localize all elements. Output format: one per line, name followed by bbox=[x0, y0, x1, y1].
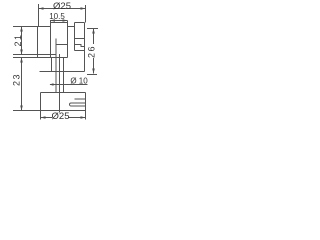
dimension D25 top extension line left bbox=[38, 4, 40, 27]
svg-text:26: 26 bbox=[87, 45, 97, 58]
dimension 21 dim line bbox=[21, 27, 23, 55]
stem outer left edge bbox=[55, 39, 57, 93]
stem outer right edge bbox=[63, 58, 65, 93]
arrowhead D25 bottom left bbox=[41, 116, 46, 119]
arrowhead D25 top left bbox=[39, 7, 44, 10]
flange step line right bbox=[75, 98, 86, 100]
flange slot outline bbox=[70, 103, 86, 106]
dimension 10.5 dim line bbox=[50, 20, 68, 22]
terminal block line 3 bbox=[75, 50, 85, 52]
svg-text:23: 23 bbox=[12, 73, 22, 86]
terminal block line 2 with notch bbox=[75, 45, 85, 47]
stem centerline bbox=[59, 54, 61, 113]
arrowhead 23 down bbox=[20, 106, 23, 111]
top boss left edge bbox=[50, 21, 52, 58]
dimension 23 dim line bbox=[21, 58, 23, 111]
top boss right edge bbox=[67, 21, 69, 58]
bottom flange left edge and D25 bottom extension bbox=[40, 93, 42, 120]
arrowhead 23 up bbox=[20, 58, 23, 63]
arrowhead 21 up bbox=[20, 27, 23, 32]
dimension 26 extension line bottom bbox=[87, 74, 97, 76]
right tab top face bbox=[75, 22, 85, 24]
dimension D25 top dim line bbox=[39, 8, 86, 10]
top face between boss and tab bbox=[68, 26, 75, 28]
svg-text:Ø25: Ø25 bbox=[52, 111, 70, 122]
bottom flange bottom face and 23 extension bbox=[13, 110, 86, 112]
dimension D25 bottom dim line right part bbox=[68, 117, 86, 119]
upper body left edge bbox=[37, 27, 39, 58]
right tab left edge bbox=[74, 23, 76, 51]
dimension 26 dim line lower bbox=[93, 58, 95, 74]
top boss top face bbox=[51, 22, 68, 24]
terminal block line 1 bbox=[75, 38, 85, 40]
body lower-left edge bbox=[51, 58, 53, 72]
dimension 21 extension line top bbox=[13, 26, 51, 28]
svg-text:Ø 10: Ø 10 bbox=[70, 77, 88, 86]
dimension 26 dim line upper bbox=[93, 29, 95, 45]
arrowhead D10 leader bbox=[50, 83, 54, 85]
arrowhead 10.5 left bbox=[50, 19, 55, 22]
arrowhead 26 up bbox=[92, 29, 95, 34]
arrowhead 21 down bbox=[20, 50, 23, 55]
bottom flange top face bbox=[41, 92, 86, 94]
internal step line bbox=[56, 44, 68, 46]
dimension 23 extension line top bbox=[13, 57, 68, 59]
svg-text:10.5: 10.5 bbox=[49, 12, 65, 21]
bottom flange right edge and D25 bottom extension bbox=[85, 93, 87, 120]
dimension D25 top extension line right bbox=[85, 5, 87, 23]
D10 leader line bbox=[50, 84, 88, 86]
arrowhead D25 bottom right bbox=[81, 116, 86, 119]
dimension 26 extension line top bbox=[87, 28, 98, 30]
dimension 21 extension line bottom bbox=[13, 54, 56, 56]
svg-text:21: 21 bbox=[13, 33, 23, 46]
arrowhead D25 top right bbox=[81, 7, 86, 10]
upper body right edge bbox=[84, 23, 86, 72]
arrowhead 10.5 right bbox=[63, 19, 68, 22]
body bottom face bbox=[40, 71, 85, 73]
dimension D25 bottom dim line left part bbox=[41, 117, 53, 119]
arrowhead 26 down bbox=[92, 69, 95, 74]
svg-text:Ø25: Ø25 bbox=[53, 1, 71, 12]
